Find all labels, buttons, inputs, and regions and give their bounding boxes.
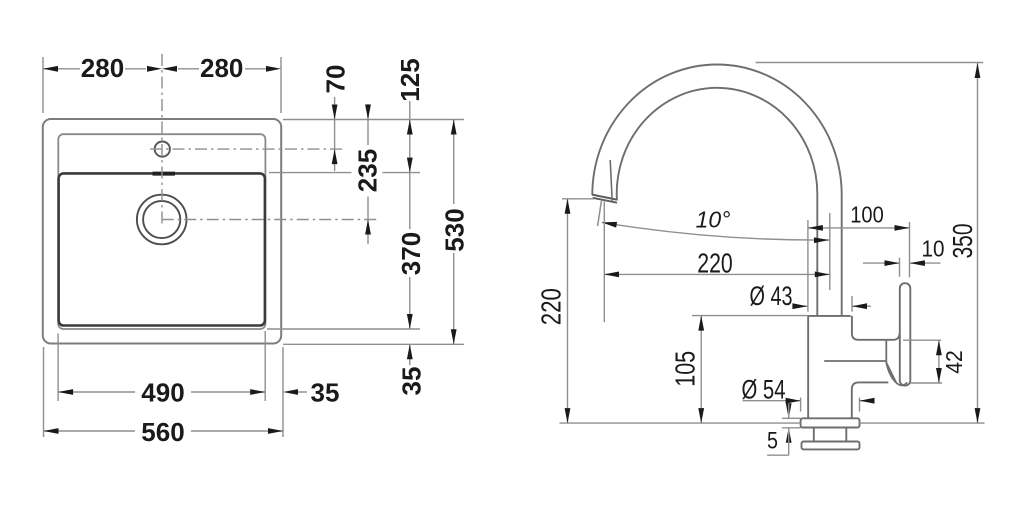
svg-text:105: 105: [670, 351, 701, 387]
svg-text:10: 10: [922, 235, 945, 261]
svg-text:125: 125: [395, 58, 425, 101]
svg-text:350: 350: [947, 224, 978, 259]
svg-text:10°: 10°: [696, 206, 731, 232]
svg-text:5: 5: [767, 428, 778, 455]
svg-text:Ø 54: Ø 54: [742, 375, 786, 405]
svg-text:42: 42: [941, 350, 967, 374]
svg-text:235: 235: [352, 149, 382, 192]
svg-text:Ø 43: Ø 43: [750, 281, 793, 311]
svg-text:530: 530: [439, 208, 469, 251]
svg-text:70: 70: [320, 65, 350, 94]
svg-text:220: 220: [697, 247, 733, 278]
svg-text:220: 220: [535, 288, 566, 325]
svg-text:490: 490: [141, 377, 184, 407]
svg-text:35: 35: [311, 377, 340, 407]
svg-text:35: 35: [396, 367, 426, 396]
svg-text:280: 280: [200, 53, 243, 83]
svg-text:560: 560: [141, 417, 184, 447]
svg-text:280: 280: [81, 53, 124, 83]
svg-text:370: 370: [396, 232, 426, 275]
svg-text:100: 100: [850, 201, 884, 227]
